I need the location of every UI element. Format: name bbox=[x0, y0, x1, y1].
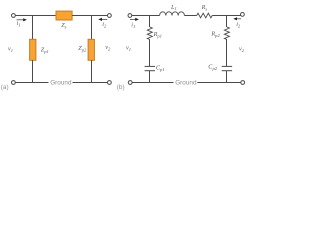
wire shunt branch Zp2 upper bbox=[91, 16, 93, 40]
svg-text:Ground: Ground bbox=[50, 79, 72, 86]
ground wire left segment (a) bbox=[15, 82, 48, 84]
ground wire left segment (b) bbox=[132, 82, 173, 84]
impedance box Zs (series) bbox=[56, 11, 72, 20]
resistor Rp1 (vertical zigzag) bbox=[147, 27, 152, 40]
wire shunt branch Rp2 upper bbox=[226, 16, 228, 28]
terminal port 2 top (a) bbox=[108, 14, 112, 18]
ground wire right segment (b) bbox=[197, 82, 240, 84]
wire between L1 and R1 bbox=[184, 15, 196, 17]
terminal port 1 bottom (a) bbox=[12, 81, 16, 85]
ground wire right segment (a) bbox=[73, 82, 108, 84]
wire shunt branch Cp1 lower bbox=[149, 71, 151, 83]
terminal port 1 top (a) bbox=[12, 14, 16, 18]
resistor Rp2 (vertical zigzag) bbox=[224, 27, 229, 40]
wire shunt branch Zp1 lower bbox=[32, 60, 34, 82]
wire shunt branch Cp2 lower bbox=[226, 71, 228, 83]
current arrow i2 (b) bbox=[236, 18, 241, 20]
resistor R1 (horizontal zigzag) bbox=[197, 13, 213, 18]
impedance box Zp2 bbox=[88, 39, 94, 60]
terminal port 2 bottom (b) bbox=[241, 81, 245, 85]
terminal port 1 bottom (b) bbox=[128, 81, 132, 85]
wire shunt branch Zp2 lower bbox=[91, 60, 93, 82]
inductor L1 bbox=[160, 12, 185, 16]
wire top-middle-right (a) bbox=[72, 15, 107, 17]
current arrow i1 (a) bbox=[17, 19, 25, 21]
current arrow i1 (b) bbox=[130, 18, 136, 20]
wire shunt branch Rp2 middle bbox=[226, 40, 228, 67]
wire top-right (b) bbox=[212, 15, 240, 17]
wire shunt branch Rp1 upper bbox=[149, 16, 151, 28]
capacitor Cp2 bbox=[222, 65, 232, 67]
capacitor Cp1 bbox=[145, 65, 155, 67]
wire shunt branch Rp1 middle bbox=[149, 40, 151, 67]
svg-text:(b): (b) bbox=[117, 84, 125, 91]
svg-text:(a): (a) bbox=[1, 84, 9, 91]
terminal port 1 top (b) bbox=[128, 14, 132, 18]
current arrow i2 (a) bbox=[101, 18, 107, 20]
wire top-left (b) bbox=[132, 15, 160, 17]
terminal port 2 bottom (a) bbox=[108, 81, 112, 85]
svg-text:Ground: Ground bbox=[175, 79, 197, 86]
wire shunt branch Zp1 upper bbox=[32, 16, 34, 40]
impedance box Zp1 bbox=[30, 39, 36, 60]
terminal port 2 top (b) bbox=[241, 13, 245, 17]
wire top-left (a) bbox=[15, 15, 56, 17]
